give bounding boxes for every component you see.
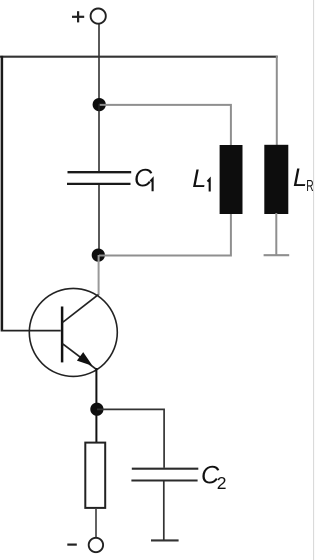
svg-text:C: C (134, 164, 153, 192)
label L1 (192, 165, 210, 193)
resistor R1 (85, 443, 105, 508)
wire: emitter to node C (95, 368, 97, 405)
capacitor C2 (131, 469, 198, 481)
node C (90, 403, 103, 416)
wire: node C to resistor R1 (95, 412, 97, 443)
wire: C2 bottom lead (163, 482, 165, 541)
- supply terminal (67, 538, 103, 552)
C2 termination bar (151, 539, 179, 541)
wire: base (1, 330, 61, 332)
wire: C1 to node B (98, 185, 100, 255)
inductor LR (264, 145, 288, 214)
wire: node B to L1 bottom (99, 213, 231, 256)
inductor L1 (220, 145, 243, 214)
wire: left rail (feedback to base) (1, 56, 4, 332)
svg-text:2: 2 (217, 473, 227, 493)
svg-text:L: L (192, 165, 206, 193)
wire: node A to C1 (98, 104, 100, 172)
LR open termination bar (264, 254, 290, 256)
node A (93, 98, 106, 111)
wire: node C to C2 (97, 409, 164, 467)
wire: node A to L1 top (99, 105, 231, 146)
wire: top rail to LR (276, 56, 278, 146)
wire: resistor R1 to - terminal (95, 508, 97, 538)
svg-text:R: R (306, 178, 313, 195)
capacitor C1 (67, 172, 131, 184)
transistor Q1 (29, 288, 117, 376)
wire: + terminal to node A (98, 24, 100, 101)
label C1 (134, 164, 153, 192)
+ supply terminal (72, 9, 106, 24)
svg-text:L: L (293, 164, 307, 192)
node B (92, 249, 105, 262)
wire: LR bottom lead (275, 213, 277, 255)
label C2 (201, 461, 227, 493)
wire: top supply rail (0, 56, 278, 58)
wire: node B to collector (98, 255, 100, 295)
label LR (293, 164, 314, 195)
